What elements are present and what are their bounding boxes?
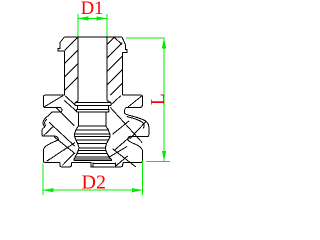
base cone lines bbox=[74, 151, 112, 161]
D2 arrow right bbox=[132, 188, 143, 192]
D1 extension right bbox=[106, 14, 108, 37]
tab1R hatch bbox=[128, 96, 142, 107]
neck outer left bbox=[63, 51, 65, 95]
column walls bbox=[78, 112, 106, 126]
lip cone right F2 bbox=[115, 156, 127, 167]
hatch right wall bbox=[107, 37, 122, 95]
web diagonal A right bbox=[111, 96, 121, 105]
D2 arrow left bbox=[43, 188, 54, 192]
lip cone upper left bbox=[47, 143, 75, 162]
D2 extension right bbox=[141, 160, 143, 195]
barrel bulge lines bbox=[75, 126, 111, 148]
crescent bulge left bbox=[43, 118, 46, 127]
lip outer left bbox=[43, 151, 60, 162]
lip cone right F1 bbox=[113, 149, 136, 167]
base cone left edge bbox=[74, 148, 79, 161]
D1 arrow left bbox=[78, 16, 89, 20]
lip bottom right bbox=[123, 161, 140, 163]
web diagonal A left bbox=[65, 96, 75, 105]
D2 dimension line bbox=[43, 189, 143, 191]
neck outer right bbox=[121, 52, 123, 95]
chamfer inner right bbox=[114, 37, 122, 45]
D1 extension left bbox=[77, 14, 79, 37]
bellows tab1 left bbox=[44, 95, 65, 112]
L extension bottom bbox=[146, 160, 170, 162]
chamfer right bbox=[122, 37, 125, 45]
rim right wall bbox=[122, 45, 127, 53]
lip bottom left bbox=[71, 161, 91, 163]
tooth right bbox=[115, 162, 123, 166]
hatch left wall bbox=[64, 37, 78, 90]
web diagonal G2 right bbox=[113, 121, 130, 134]
D1 dimension line bbox=[78, 17, 107, 19]
bellows tab2 left bbox=[42, 127, 59, 139]
bellows tab1 right bbox=[122, 95, 142, 112]
tab2 hatch left bbox=[44, 126, 54, 135]
shoulder into lip left bbox=[43, 139, 58, 151]
web diagonal C left bbox=[49, 122, 75, 146]
web diagonal C2 left bbox=[54, 137, 75, 154]
L dimension line bbox=[163, 38, 165, 162]
chamfer left bbox=[60, 37, 64, 43]
foot box bbox=[91, 162, 115, 167]
bellows fold inner right (crescent) bbox=[127, 117, 144, 129]
bore wall left bbox=[77, 37, 79, 101]
rim left wall bbox=[58, 43, 64, 52]
svg-text:D2: D2 bbox=[82, 171, 106, 193]
web diagonal G3 right bbox=[115, 136, 132, 150]
L arrow top bbox=[162, 38, 166, 49]
barrel right edge bbox=[105, 126, 110, 148]
tab2R hatch bbox=[130, 121, 146, 139]
crescent inner line left bbox=[45, 119, 47, 126]
L extension top bbox=[126, 37, 165, 39]
fold S-curve to crescent left bbox=[46, 113, 52, 118]
center ring A bbox=[75, 101, 111, 106]
lip cone right F0 bbox=[109, 146, 128, 157]
svg-text:D1: D1 bbox=[81, 0, 104, 19]
base cone right edge bbox=[105, 148, 112, 161]
barrel left edge bbox=[75, 126, 79, 148]
bellows fold outer right bbox=[125, 112, 149, 136]
neck between rings bbox=[78, 106, 109, 110]
tab1 hatch left bbox=[44, 96, 63, 107]
svg-text:L: L bbox=[148, 93, 169, 105]
center ring A2 bbox=[76, 109, 109, 112]
right lower S to dome bbox=[128, 137, 130, 142]
web diagonal G1 right bbox=[110, 107, 142, 142]
bore wall right bbox=[106, 37, 108, 101]
lip tooth left bbox=[60, 162, 71, 167]
web diagonal B left bbox=[57, 108, 75, 126]
D2 extension left bbox=[42, 164, 44, 195]
web diagonal A2 left bbox=[64, 100, 76, 111]
lip cone lower left bbox=[62, 153, 74, 166]
lip outer right bbox=[129, 141, 142, 162]
top face of fitting bbox=[64, 36, 122, 38]
L arrow bottom bbox=[162, 151, 166, 162]
D1 arrow right bbox=[96, 16, 107, 20]
